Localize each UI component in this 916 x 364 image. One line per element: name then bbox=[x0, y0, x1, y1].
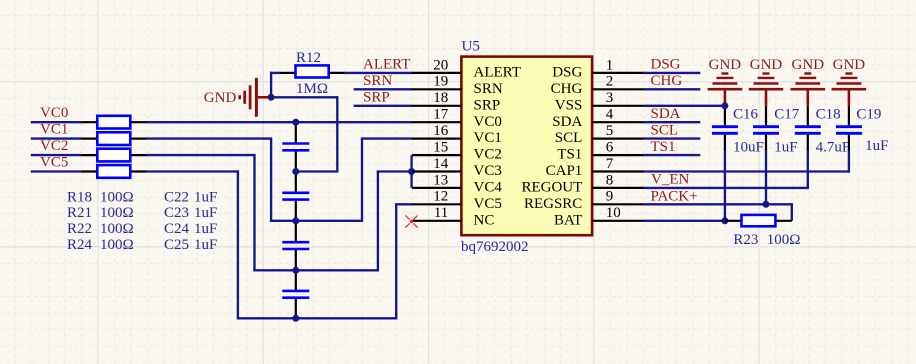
svg-text:R22: R22 bbox=[67, 221, 92, 237]
svg-text:19: 19 bbox=[433, 74, 448, 90]
svg-text:15: 15 bbox=[433, 140, 448, 156]
wire CHG bbox=[644, 88, 701, 90]
wire TS1 bbox=[644, 154, 701, 156]
junction GND/R12 bbox=[268, 94, 275, 101]
svg-text:VC1: VC1 bbox=[474, 130, 502, 146]
svg-text:R23: R23 bbox=[733, 232, 758, 248]
wire net VC0 from left edge bbox=[31, 121, 82, 123]
svg-text:VC1: VC1 bbox=[40, 122, 68, 138]
resistor R23 bbox=[742, 215, 776, 226]
svg-text:6: 6 bbox=[606, 140, 614, 156]
capacitor C18 bottom lead bbox=[807, 135, 809, 150]
resistor R24 pins bbox=[81, 170, 97, 172]
capacitor C19 bbox=[836, 125, 862, 128]
pin 4 stub bbox=[592, 121, 644, 123]
svg-text:SDA: SDA bbox=[552, 114, 582, 130]
wire chain junction to VC3 riser bbox=[296, 269, 378, 271]
capacitor C23 bbox=[282, 192, 309, 195]
svg-text:VC5: VC5 bbox=[40, 155, 68, 171]
resistor R22 pins bbox=[81, 154, 97, 156]
wire SRN bbox=[354, 88, 413, 90]
wire net VC5 from left edge bbox=[31, 170, 82, 172]
svg-text:100Ω: 100Ω bbox=[100, 189, 134, 205]
svg-text:1uF: 1uF bbox=[774, 139, 797, 155]
power ground above C18 bbox=[791, 74, 826, 106]
pin 1 stub bbox=[592, 72, 644, 74]
wire GND right run bbox=[271, 96, 337, 98]
pin 19 stub bbox=[412, 88, 461, 90]
svg-text:10uF: 10uF bbox=[733, 139, 764, 155]
svg-text:CHG: CHG bbox=[551, 81, 583, 97]
resistor R21 pins bbox=[81, 138, 97, 140]
wire CAP1 run bbox=[644, 170, 849, 172]
svg-text:VC0: VC0 bbox=[40, 105, 68, 121]
junction PACK/C17/R23 bbox=[763, 201, 770, 208]
junction VC5/chain bbox=[292, 315, 299, 322]
svg-text:9: 9 bbox=[606, 189, 614, 205]
wire SDA bbox=[644, 121, 701, 123]
capacitor C24 bbox=[282, 241, 309, 244]
capacitor chain lead 1 bbox=[295, 122, 297, 143]
junction BAT/C16/R23 bbox=[721, 217, 728, 224]
wire ALERT bbox=[345, 72, 413, 74]
svg-text:16: 16 bbox=[433, 123, 449, 139]
wire REGSRC run bbox=[644, 203, 766, 205]
svg-text:5: 5 bbox=[606, 123, 614, 139]
capacitor C17 top lead bbox=[765, 106, 767, 125]
svg-text:100Ω: 100Ω bbox=[100, 205, 134, 221]
svg-text:DSG: DSG bbox=[552, 65, 582, 81]
svg-text:V_EN: V_EN bbox=[651, 172, 689, 188]
svg-text:VC2: VC2 bbox=[474, 147, 502, 163]
svg-text:7: 7 bbox=[606, 156, 614, 172]
svg-text:GND: GND bbox=[204, 90, 237, 106]
svg-text:8: 8 bbox=[606, 172, 614, 188]
capacitor C19 bottom lead bbox=[848, 135, 850, 150]
svg-text:SDA: SDA bbox=[651, 106, 681, 122]
resistor R18 bbox=[97, 116, 130, 129]
svg-text:SCL: SCL bbox=[555, 130, 583, 146]
wire C17 bottom bbox=[765, 149, 767, 204]
pin 10 stub bbox=[592, 220, 644, 222]
svg-text:REGOUT: REGOUT bbox=[521, 180, 582, 196]
pin 14 stub bbox=[412, 170, 461, 172]
wire R23 right riser bbox=[791, 203, 793, 221]
wire VC0 row to pin 17 bbox=[146, 121, 412, 123]
wire VC2 bottom to chain bbox=[253, 269, 295, 271]
power ground above C19 bbox=[832, 74, 867, 106]
svg-text:C23: C23 bbox=[164, 205, 189, 221]
capacitor chain lead 3 bbox=[295, 172, 297, 193]
svg-text:CAP1: CAP1 bbox=[546, 163, 583, 179]
wire VC1 row to corner bbox=[146, 137, 271, 139]
svg-text:ALERT: ALERT bbox=[363, 57, 410, 73]
svg-text:SRP: SRP bbox=[363, 90, 390, 106]
svg-text:DSG: DSG bbox=[651, 57, 681, 73]
wire GND corner to R12 pin bbox=[270, 72, 280, 74]
svg-text:11: 11 bbox=[434, 205, 448, 221]
op-amp U5 body bbox=[461, 57, 592, 236]
svg-text:GND: GND bbox=[792, 57, 825, 73]
wire BAT run bbox=[644, 220, 725, 222]
wire VSS to C16 bbox=[644, 105, 725, 107]
svg-text:R18: R18 bbox=[67, 189, 92, 205]
svg-text:C17: C17 bbox=[774, 107, 800, 123]
wire REGSRC to R23 riser bbox=[766, 203, 792, 205]
svg-text:VC3: VC3 bbox=[474, 163, 502, 179]
svg-text:SRN: SRN bbox=[474, 81, 503, 97]
wire VC1 vertical down bbox=[270, 137, 272, 220]
junction VC2/chain bbox=[292, 267, 299, 274]
resistor R23 pins bbox=[725, 220, 742, 222]
svg-text:SCL: SCL bbox=[651, 122, 679, 138]
capacitor C17 bbox=[753, 125, 779, 128]
resistor R12 bbox=[296, 65, 329, 77]
svg-text:SRP: SRP bbox=[474, 97, 501, 113]
svg-text:12: 12 bbox=[433, 189, 448, 205]
pin 16 stub bbox=[412, 138, 461, 140]
svg-text:100Ω: 100Ω bbox=[767, 232, 801, 248]
pin 2 stub bbox=[592, 88, 644, 90]
svg-text:1: 1 bbox=[606, 57, 614, 73]
svg-text:VC2: VC2 bbox=[40, 138, 68, 154]
pin 20 stub bbox=[412, 72, 461, 74]
capacitor chain lead 6 bbox=[295, 249, 297, 270]
svg-text:R24: R24 bbox=[67, 237, 93, 253]
svg-text:4: 4 bbox=[606, 107, 614, 123]
resistor R21 bbox=[97, 132, 130, 145]
wire C16 bottom bbox=[724, 149, 726, 221]
svg-text:13: 13 bbox=[433, 172, 448, 188]
svg-text:U5: U5 bbox=[462, 39, 480, 55]
svg-text:1uF: 1uF bbox=[194, 205, 217, 221]
power ground GND left symbol bbox=[240, 78, 271, 117]
wire VC5 vertical down bbox=[237, 170, 239, 318]
pin 7 stub bbox=[592, 170, 644, 172]
wire GND to chain bbox=[296, 170, 339, 172]
junction VC0/chain bbox=[292, 119, 299, 126]
pin 9 stub bbox=[592, 203, 644, 205]
capacitor chain lead 2 bbox=[295, 150, 297, 171]
pin 8 stub bbox=[592, 187, 644, 189]
svg-text:bq7692002: bq7692002 bbox=[461, 239, 529, 255]
pin 15 stub bbox=[412, 154, 461, 156]
capacitor C17 bottom lead bbox=[765, 135, 767, 150]
svg-text:C18: C18 bbox=[816, 107, 841, 123]
pin 18 stub bbox=[412, 105, 461, 107]
wire REGOUT riser bbox=[807, 149, 809, 189]
resistor R18 pins bbox=[81, 121, 97, 123]
junction VC3 tie bbox=[408, 168, 415, 175]
wire riser to pin 12 bbox=[395, 203, 413, 205]
svg-text:2: 2 bbox=[606, 74, 614, 90]
junction VC1/chain bbox=[292, 217, 299, 224]
svg-text:TS1: TS1 bbox=[651, 139, 676, 155]
capacitor C16 bottom lead bbox=[724, 135, 726, 150]
wire net VC1 from left edge bbox=[31, 137, 82, 139]
svg-text:4.7uF: 4.7uF bbox=[816, 139, 851, 155]
wire REGOUT run bbox=[644, 187, 808, 189]
wire riser to pin 16 bbox=[361, 137, 413, 139]
svg-text:NC: NC bbox=[474, 212, 495, 228]
svg-text:1MΩ: 1MΩ bbox=[296, 81, 328, 97]
svg-text:ALERT: ALERT bbox=[474, 65, 521, 81]
junction GND/chain bbox=[292, 168, 299, 175]
svg-text:GND: GND bbox=[750, 57, 783, 73]
pin 11 stub bbox=[412, 220, 461, 222]
svg-text:VSS: VSS bbox=[555, 97, 583, 113]
capacitor C19 top lead bbox=[848, 106, 850, 125]
capacitor C18 top lead bbox=[807, 106, 809, 125]
svg-text:BAT: BAT bbox=[554, 212, 582, 228]
wire VC5 riser to pin 12 row bbox=[395, 204, 397, 319]
wire GND up to R12 bbox=[270, 72, 272, 98]
capacitor chain lead 8 bbox=[295, 298, 297, 319]
svg-text:18: 18 bbox=[433, 90, 448, 106]
pin 6 stub bbox=[592, 154, 644, 156]
pin 17 stub bbox=[412, 121, 461, 123]
pin 13 stub bbox=[412, 187, 461, 189]
svg-text:100Ω: 100Ω bbox=[100, 221, 134, 237]
capacitor chain lead 4 bbox=[295, 200, 297, 221]
svg-text:VC4: VC4 bbox=[474, 180, 503, 196]
svg-text:3: 3 bbox=[606, 90, 614, 106]
svg-text:17: 17 bbox=[433, 107, 449, 123]
power ground above C16 bbox=[708, 74, 743, 106]
pin 12 stub bbox=[412, 203, 461, 205]
wire net VC2 from left edge bbox=[31, 154, 82, 156]
junction VSS/C16 bbox=[721, 102, 728, 109]
resistor R22 bbox=[97, 149, 130, 162]
wire DSG bbox=[644, 72, 701, 74]
wire VC2 row to corner bbox=[146, 154, 254, 156]
svg-text:TS1: TS1 bbox=[557, 147, 582, 163]
svg-text:C16: C16 bbox=[733, 107, 759, 123]
no-ERC marker pin 11 bbox=[405, 215, 409, 219]
svg-text:C24: C24 bbox=[164, 221, 190, 237]
pin 3 stub bbox=[592, 105, 644, 107]
wire VC3 riser up bbox=[377, 172, 379, 272]
svg-text:1uF: 1uF bbox=[194, 189, 217, 205]
capacitor C16 top lead bbox=[724, 106, 726, 125]
svg-text:PACK+: PACK+ bbox=[651, 188, 698, 204]
wire SCL bbox=[644, 137, 701, 139]
svg-text:R21: R21 bbox=[67, 205, 92, 221]
wire VC5 row to corner bbox=[146, 170, 238, 172]
svg-text:1uF: 1uF bbox=[194, 221, 217, 237]
svg-text:14: 14 bbox=[433, 156, 449, 172]
power ground above C17 bbox=[749, 74, 784, 106]
svg-text:C19: C19 bbox=[856, 107, 881, 123]
wire tie pins 15-14-13 bbox=[410, 155, 412, 188]
capacitor C25 bbox=[282, 290, 309, 293]
wire CAP1 riser bbox=[848, 149, 850, 173]
svg-text:CHG: CHG bbox=[651, 73, 683, 89]
svg-text:R12: R12 bbox=[296, 50, 321, 66]
svg-text:C22: C22 bbox=[164, 189, 189, 205]
wire pin16 riser up bbox=[361, 139, 363, 222]
svg-text:1uF: 1uF bbox=[194, 237, 217, 253]
svg-text:C25: C25 bbox=[164, 237, 189, 253]
resistor R24 bbox=[97, 165, 130, 178]
capacitor chain lead 5 bbox=[295, 221, 297, 242]
parameter table R18-R24 C22-C25 bbox=[67, 189, 217, 253]
resistor R12 pins bbox=[280, 72, 296, 74]
svg-text:GND: GND bbox=[709, 57, 742, 73]
capacitor C16 bbox=[712, 125, 738, 128]
svg-text:GND: GND bbox=[833, 57, 866, 73]
svg-text:10: 10 bbox=[606, 205, 621, 221]
capacitor chain lead 7 bbox=[295, 270, 297, 291]
wire SRP bbox=[354, 105, 413, 107]
capacitor C18 bbox=[795, 125, 821, 128]
svg-text:VC0: VC0 bbox=[474, 114, 502, 130]
wire VC1 bottom run to pin16 riser bbox=[270, 220, 362, 222]
svg-text:20: 20 bbox=[433, 57, 448, 73]
capacitor C22 bbox=[282, 142, 309, 145]
svg-text:SRN: SRN bbox=[363, 73, 392, 89]
svg-text:REGSRC: REGSRC bbox=[524, 196, 582, 212]
pin 5 stub bbox=[592, 138, 644, 140]
svg-text:1uF: 1uF bbox=[865, 138, 888, 154]
wire VC2 vertical down bbox=[253, 154, 255, 270]
wire riser to pin 14 bbox=[377, 170, 413, 172]
svg-text:VC5: VC5 bbox=[474, 196, 502, 212]
wire VC5 bottom run bbox=[237, 317, 397, 319]
svg-text:100Ω: 100Ω bbox=[100, 237, 134, 253]
wire GND vertical down bbox=[336, 96, 338, 171]
